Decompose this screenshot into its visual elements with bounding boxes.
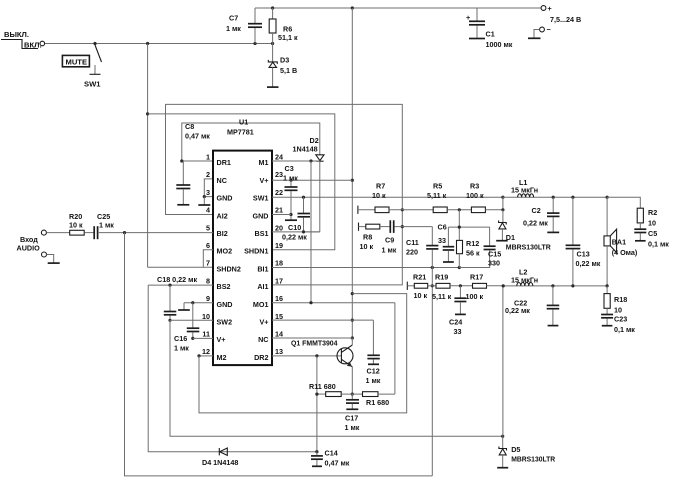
svg-text:1000 мк: 1000 мк <box>486 40 513 49</box>
svg-text:0,47 мк: 0,47 мк <box>325 459 350 468</box>
svg-text:6: 6 <box>206 241 210 250</box>
svg-text:100 к: 100 к <box>466 191 484 200</box>
pins 6-7 MO2/SHDN2 tie bracket <box>203 250 213 267</box>
resistor R17 100 к <box>466 273 504 302</box>
capacitor C6 33 with ground <box>438 223 455 263</box>
capacitor C11 220 on vertical x=432.3 <box>406 227 438 476</box>
svg-text:C1: C1 <box>486 30 495 39</box>
diode D1 MBRS130LTR (vertical x=502.9) <box>496 210 551 252</box>
svg-text:0,22 мк: 0,22 мк <box>505 306 530 315</box>
svg-text:DR2: DR2 <box>254 353 268 362</box>
svg-text:1 мк: 1 мк <box>366 376 381 385</box>
svg-text:16: 16 <box>275 294 283 303</box>
svg-text:C8: C8 <box>185 122 194 131</box>
capacitor C5 0,1 мк with ground <box>634 223 669 249</box>
svg-text:C16: C16 <box>174 334 187 343</box>
wire: pin9 GND with ground symbol <box>178 301 213 310</box>
capacitor C1 1000 мк (electrolytic) <box>466 8 513 49</box>
resistor R19 5,11 к <box>432 273 473 302</box>
wire: pin21 GND <box>272 214 291 216</box>
svg-text:15 мкГн: 15 мкГн <box>511 185 538 194</box>
svg-text:0,47 мк: 0,47 мк <box>185 132 210 141</box>
wire: pin11 V+ <box>193 337 213 339</box>
svg-text:D4 1N4148: D4 1N4148 <box>202 458 238 467</box>
svg-text:1 мк: 1 мк <box>345 423 360 432</box>
svg-text:BA1: BA1 <box>612 238 626 247</box>
wire: feedback row 1 (R7/R5/R3) y=209.8 <box>358 206 375 214</box>
terminal - (minus) with ground bar <box>528 25 551 38</box>
svg-text:R1 680: R1 680 <box>366 398 389 407</box>
svg-text:V+: V+ <box>217 335 226 344</box>
svg-text:5,1 В: 5,1 В <box>280 66 297 75</box>
svg-text:SW1: SW1 <box>84 80 101 89</box>
svg-text:33: 33 <box>438 236 446 245</box>
wire: output node top y=197.2 with dots <box>552 196 609 199</box>
svg-text:12: 12 <box>202 347 210 356</box>
svg-text:C10: C10 <box>288 223 301 232</box>
svg-text:23: 23 <box>275 170 283 179</box>
wire: BS2 to D4 line (left vertical x=148.2) <box>148 285 317 452</box>
wire: pin18 BI1 to R12/C11 node <box>272 266 461 269</box>
svg-text:MBRS130LTR: MBRS130LTR <box>506 243 552 252</box>
svg-text:C9: C9 <box>385 236 394 245</box>
svg-text:BI1: BI1 <box>257 264 268 273</box>
svg-text:0,22 мк: 0,22 мк <box>282 233 307 242</box>
IC U1 MP7781 body <box>213 118 272 366</box>
wire: SW2 net vertical from D5 line up to L2 input <box>502 286 504 436</box>
svg-text:(4 Ома): (4 Ома) <box>612 248 638 257</box>
svg-text:C24: C24 <box>449 318 462 327</box>
svg-text:100 к: 100 к <box>466 292 484 301</box>
svg-text:51,1 к: 51,1 к <box>278 33 298 42</box>
svg-text:C12: C12 <box>367 367 380 376</box>
svg-text:SW2: SW2 <box>217 318 233 327</box>
resistor R20 10 к <box>69 212 84 235</box>
svg-text:1 мк: 1 мк <box>382 246 397 255</box>
svg-text:7: 7 <box>206 259 210 268</box>
wire: V+ vertical rail x=352.3 <box>351 8 354 340</box>
svg-text:R21: R21 <box>413 273 426 282</box>
wire: top V+ rail horizontal <box>255 6 541 9</box>
svg-text:220: 220 <box>406 248 418 257</box>
svg-text:15: 15 <box>275 312 283 321</box>
svg-text:R5: R5 <box>433 182 442 191</box>
pins 2-3 NC/GND tie bracket with ground <box>198 179 213 205</box>
resistor R7 10 к <box>372 182 433 213</box>
svg-text:C23: C23 <box>614 315 627 324</box>
svg-text:D1: D1 <box>506 233 515 242</box>
capacitor C8 0,47 мк with ground <box>176 122 210 205</box>
zener diode D3 5,1 В <box>267 44 297 88</box>
transistor Q1 FMMT3904 <box>291 338 353 394</box>
wire: pin15 V+ to C12 <box>272 320 373 355</box>
svg-text:0,1 мк: 0,1 мк <box>648 240 669 249</box>
resistor R5 5,11 к <box>427 182 471 213</box>
resistor R1 680 <box>352 392 395 407</box>
wire: pin10 SW2 line <box>170 319 213 321</box>
capacitor C15 330 <box>459 227 501 267</box>
svg-text:R11 680: R11 680 <box>309 382 336 391</box>
capacitor C14 0,47 мк with ground <box>311 449 350 468</box>
svg-text:M2: M2 <box>217 353 227 362</box>
svg-text:4: 4 <box>206 206 210 215</box>
svg-text:C2: C2 <box>532 206 541 215</box>
svg-text:C3: C3 <box>285 164 294 173</box>
svg-text:C18 0,22 мк: C18 0,22 мк <box>157 275 197 284</box>
svg-text:20: 20 <box>275 223 283 232</box>
svg-text:AI2: AI2 <box>217 211 228 220</box>
svg-text:1 мк: 1 мк <box>226 24 241 33</box>
capacitor C24 33 with ground <box>449 286 466 336</box>
svg-text:−: − <box>547 25 551 34</box>
svg-text:10 к: 10 к <box>360 242 374 251</box>
inductor L1 15 мкГн <box>503 178 607 197</box>
svg-text:0,22 мк: 0,22 мк <box>523 219 548 228</box>
svg-text:SHDN2: SHDN2 <box>217 264 241 273</box>
inductor L2 15 мкГн <box>502 268 609 288</box>
wire: pin5 BI2 input node <box>99 231 213 234</box>
capacitor C2 0,22 мк with ground <box>523 197 560 232</box>
resistor R21 10 к <box>413 273 436 301</box>
svg-text:1 мк: 1 мк <box>99 221 114 230</box>
svg-text:33: 33 <box>454 327 462 336</box>
svg-text:D3: D3 <box>280 56 289 65</box>
wire: C6/R12/C15 bus y=227.1 <box>448 210 489 241</box>
svg-text:2: 2 <box>206 170 210 179</box>
input jack Вход AUDIO <box>17 230 70 252</box>
speaker BA1 (4 Ома) <box>604 197 638 286</box>
resistor R3 100 к <box>466 182 505 213</box>
svg-text:R12: R12 <box>466 239 479 248</box>
capacitor C13 0,22 мк (between output rails) <box>566 197 601 286</box>
svg-text:1 мк: 1 мк <box>174 344 189 353</box>
svg-text:GND: GND <box>253 211 269 220</box>
svg-text:C7: C7 <box>229 14 238 23</box>
capacitor C10 0,22 мк (SW1 to BS1 bootstrap) <box>282 197 310 241</box>
svg-text:AUDIO: AUDIO <box>17 244 41 253</box>
svg-text:8: 8 <box>206 276 210 285</box>
wire: pin22 SW1 output line to L1 <box>272 196 505 199</box>
svg-text:C11: C11 <box>406 238 419 247</box>
svg-text:R17: R17 <box>470 273 483 282</box>
switch contact circle (ВКЛ) <box>40 41 45 46</box>
svg-text:5,11 к: 5,11 к <box>427 191 447 200</box>
svg-text:10: 10 <box>648 219 656 228</box>
wire: pin24 M1 net to MO1 vertical <box>272 159 320 302</box>
svg-text:C13: C13 <box>577 250 590 259</box>
svg-text:NC: NC <box>258 335 268 344</box>
svg-text:10 к: 10 к <box>69 221 83 230</box>
svg-text:DR1: DR1 <box>217 158 231 167</box>
wire: feedback row 2 (R21/R19/R17) y=285.8 <box>407 282 414 290</box>
svg-text:9: 9 <box>206 294 210 303</box>
svg-text:13: 13 <box>275 347 283 356</box>
svg-text:C15: C15 <box>488 250 501 259</box>
svg-text:C5: C5 <box>648 229 657 238</box>
svg-text:10 к: 10 к <box>414 291 428 300</box>
wire: pin20 BS1 <box>272 230 320 233</box>
svg-text:AI1: AI1 <box>257 282 268 291</box>
wire: pin13 DR2 to Q1 base <box>272 354 341 451</box>
capacitor C18 0,22 мк (BS2 to SW2 bootstrap) <box>164 285 177 322</box>
svg-text:V+: V+ <box>260 318 269 327</box>
label ВЫКЛ. / ВКЛ. with step wire <box>1 30 42 50</box>
wire: MUTE net vertical x=147.6 down to SHDN2 <box>146 44 213 268</box>
capacitor C22 0,22 мк with ground <box>505 286 559 326</box>
svg-text:MO2: MO2 <box>217 247 233 256</box>
resistor R12 56 к (vertical) <box>457 239 480 268</box>
resistor R18 10 <box>604 286 627 315</box>
svg-text:R8: R8 <box>363 233 372 242</box>
wire: pin16 MO1 to R1 <box>272 301 395 394</box>
svg-text:18: 18 <box>275 259 283 268</box>
wire: R11/R1 emitter row y=394.1 <box>315 393 354 396</box>
diode D4 1N4148 (on y=451.7 line) <box>202 448 238 467</box>
MUTE label box <box>62 55 89 66</box>
svg-text:15 мкГн: 15 мкГн <box>511 276 538 285</box>
svg-text:GND: GND <box>217 194 233 203</box>
svg-text:BS1: BS1 <box>255 229 269 238</box>
IC pin numbers and names <box>202 153 283 362</box>
wire: pin23 V+ to rail <box>272 179 352 182</box>
svg-text:330: 330 <box>488 259 500 268</box>
capacitor C17 1 мк with ground <box>345 394 360 432</box>
capacitor C23 0,1 мк with ground <box>601 308 635 334</box>
svg-text:SW1: SW1 <box>253 194 269 203</box>
svg-text:10: 10 <box>614 306 622 315</box>
capacitor C12 1 мк <box>366 355 381 385</box>
svg-text:+: + <box>548 4 552 13</box>
resistor R8 10 к <box>360 224 390 251</box>
svg-text:C6: C6 <box>438 223 447 232</box>
wire: AI1-AI2 loop (pin17 right, around top, to pin4) <box>166 104 404 285</box>
svg-text:3: 3 <box>206 188 210 197</box>
svg-text:ВЫКЛ.: ВЫКЛ. <box>4 30 29 39</box>
svg-text:56 к: 56 к <box>466 249 480 258</box>
svg-text:17: 17 <box>275 276 283 285</box>
diode D5 MBRS130LTR with ground <box>497 436 556 468</box>
svg-text:NC: NC <box>217 176 227 185</box>
svg-text:7,5...24 В: 7,5...24 В <box>550 15 581 24</box>
svg-text:BI2: BI2 <box>217 229 228 238</box>
svg-text:1: 1 <box>206 153 210 162</box>
svg-text:0,1 мк: 0,1 мк <box>614 325 635 334</box>
svg-text:5,11 к: 5,11 к <box>432 292 452 301</box>
svg-text:U1: U1 <box>239 118 248 127</box>
svg-text:SHDN1: SHDN1 <box>244 247 268 256</box>
wire: ВКЛ switch net y=43.5 <box>45 42 274 45</box>
svg-text:21: 21 <box>275 206 283 215</box>
svg-text:MBRS130LTR: MBRS130LTR <box>511 454 556 463</box>
wire: BI2 feedback vertical x=124.5 and bottom loop y=475.9 <box>125 233 433 476</box>
svg-text:C17: C17 <box>345 414 358 423</box>
capacitor C7 1 мк <box>226 8 262 44</box>
capacitor C3 1 мк (V+ to GND pin21) <box>283 164 298 220</box>
wire: R8/C9 branch y=226.6 <box>359 223 366 231</box>
svg-text:14: 14 <box>275 330 283 339</box>
svg-text:V+: V+ <box>260 176 269 185</box>
svg-text:R6: R6 <box>283 25 292 34</box>
svg-text:24: 24 <box>275 153 283 162</box>
svg-text:D5: D5 <box>511 445 520 454</box>
svg-text:C14: C14 <box>325 449 338 458</box>
capacitor C16 1 мк (pin9 to pin11 V+) <box>174 303 199 353</box>
wire: M2 to V+ loop (pin12 down, across bottom y=412.9, up x=406.7, to rail y=293.6) <box>197 294 406 413</box>
wire: pin8 BS2 line <box>148 275 213 287</box>
diode D2 1N4148 <box>293 136 325 232</box>
svg-text:MP7781: MP7781 <box>227 128 254 137</box>
svg-text:11: 11 <box>202 330 210 339</box>
capacitor C9 1 мк <box>382 220 432 254</box>
jack sleeve ground <box>42 252 60 263</box>
svg-text:MO1: MO1 <box>253 300 269 309</box>
svg-text:R3: R3 <box>470 182 479 191</box>
svg-text:22: 22 <box>275 188 283 197</box>
svg-text:R18: R18 <box>614 295 627 304</box>
resistor R2 10 (zobel top) <box>607 197 657 227</box>
svg-text:ВКЛ.: ВКЛ. <box>24 41 42 50</box>
svg-text:10: 10 <box>202 312 210 321</box>
svg-text:1N4148: 1N4148 <box>293 145 318 154</box>
svg-text:R2: R2 <box>648 208 657 217</box>
wire: DR1 bootstrap loop to D2 (pin1 up and across y=121.4) <box>180 123 320 163</box>
svg-text:Q1 FMMT3904: Q1 FMMT3904 <box>291 339 338 348</box>
svg-text:0,22 мк: 0,22 мк <box>576 259 601 268</box>
svg-text:MUTE: MUTE <box>66 58 88 67</box>
svg-text:R7: R7 <box>376 182 385 191</box>
svg-text:BS2: BS2 <box>217 282 231 291</box>
svg-text:19: 19 <box>275 241 283 250</box>
svg-text:10 к: 10 к <box>372 191 386 200</box>
resistor R6 51,1 к <box>269 8 298 44</box>
svg-text:R19: R19 <box>435 273 448 282</box>
svg-text:M1: M1 <box>259 158 269 167</box>
resistor R11 680 <box>309 382 352 397</box>
wire: SW2 down to D5 line y=436.2 <box>170 320 504 438</box>
switch SW1 (mute switch) <box>84 45 102 89</box>
wire: pin14 NC / collector node <box>272 337 352 339</box>
terminal + (plus) <box>541 4 552 13</box>
svg-text:GND: GND <box>217 300 233 309</box>
svg-text:5: 5 <box>206 223 210 232</box>
capacitor C25 1 мк <box>84 212 114 239</box>
wire: MUTE branch to SHDN1 (top y=113.9, right x=334.8) <box>148 114 335 250</box>
